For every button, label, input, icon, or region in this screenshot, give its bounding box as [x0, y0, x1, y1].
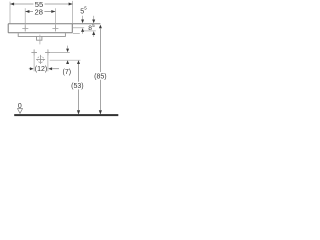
- drain level lead line: [50, 59, 81, 61]
- side line L2: [73, 27, 84, 29]
- dim 8.5 bottom arrow: [92, 31, 95, 37]
- washbasin rim box front view: [8, 24, 72, 33]
- dim 53 top arrow: [77, 60, 80, 64]
- side line L3 ref for 8.5: [84, 30, 96, 32]
- dim 53 bottom arrow: [77, 110, 80, 114]
- dim 55 extension line left: [9, 2, 11, 24]
- supply cross left: [31, 50, 37, 56]
- drain axis line: [39, 35, 41, 45]
- dim 5.5 top arrow: [81, 16, 84, 23]
- dim 12 arrow right: [48, 67, 52, 70]
- side profile top line: [72, 23, 100, 25]
- dim 12 line with outside arrows: [29, 68, 59, 70]
- drain outlet symbol dashed circle: [38, 56, 44, 62]
- drain U channel: [37, 37, 42, 41]
- supply cross right: [45, 50, 51, 56]
- tap hole cross right: [52, 25, 58, 31]
- dim 12 extension line left: [33, 49, 35, 71]
- dim 55 arrow right: [69, 3, 73, 6]
- basin bowl front view: [18, 33, 65, 36]
- drain outlet symbol cross: [36, 55, 45, 64]
- svg-text:(12): (12): [35, 66, 47, 73]
- dim 8.5 top arrow: [92, 16, 95, 23]
- dim 28 line: [25, 11, 55, 13]
- dim 28 extension line right: [55, 8, 57, 31]
- dim 55 line: [10, 3, 73, 5]
- dim 12 arrow left: [30, 67, 34, 70]
- dim 85 line: [99, 28, 101, 110]
- svg-text:(7): (7): [63, 69, 72, 76]
- dim 53 line: [78, 64, 80, 110]
- dim 28 arrow left: [25, 10, 29, 13]
- dim 12 extension line right: [47, 49, 49, 71]
- dim 28 arrow right: [51, 10, 55, 13]
- dim 55 arrow left: [10, 3, 14, 6]
- svg-text:(53): (53): [71, 83, 83, 90]
- svg-text:(85): (85): [94, 74, 106, 81]
- side line L4: [73, 33, 80, 35]
- supply level lead line: [51, 51, 70, 53]
- svg-text:28: 28: [34, 7, 42, 16]
- floor line: [14, 114, 118, 116]
- dim 85 bottom arrow: [99, 110, 102, 114]
- dim 7 bottom arrow: [66, 60, 69, 64]
- dim 7 top arrow: [66, 46, 69, 53]
- dim 85 top arrow: [99, 25, 102, 29]
- dim 55 extension line right: [72, 1, 74, 24]
- dim 28 extension line left: [24, 8, 26, 31]
- tap hole cross left: [22, 25, 28, 31]
- dim 5.5 bottom arrow: [81, 28, 84, 34]
- datum triangle: [18, 109, 23, 114]
